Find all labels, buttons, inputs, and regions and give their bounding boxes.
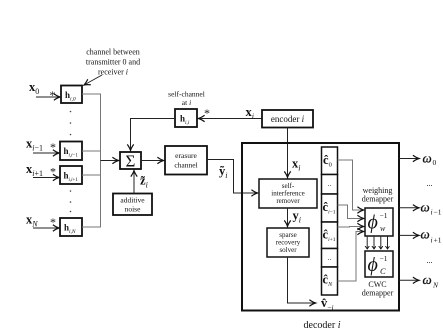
svg-text:encoder i: encoder i	[271, 114, 305, 124]
svg-text:transmitter 0 and: transmitter 0 and	[86, 58, 140, 67]
svg-text:receiver i: receiver i	[98, 68, 128, 77]
wire x_i+1 input arrow	[33, 177, 59, 179]
additive noise block	[113, 194, 152, 216]
svg-text:noise: noise	[125, 205, 142, 214]
wire h_i0 output to bus	[82, 94, 101, 151]
svg-text:+1: +1	[434, 236, 442, 245]
svg-text:−1: −1	[434, 208, 442, 217]
svg-text:xN: xN	[26, 213, 38, 229]
self-interference remover block	[259, 179, 317, 208]
svg-text:ϕ: ϕ	[368, 254, 378, 276]
svg-text:x0: x0	[29, 80, 39, 96]
svg-text:*: *	[50, 165, 56, 179]
wire h_ii to adder top	[131, 119, 176, 151]
svg-text:solver: solver	[279, 246, 297, 254]
svg-text:erasure: erasure	[175, 151, 197, 160]
svg-text:xi: xi	[292, 157, 300, 173]
svg-text:z̃i: z̃i	[140, 174, 148, 190]
svg-text:N: N	[432, 281, 439, 290]
wire h_ii-1 output to bus	[82, 150, 101, 152]
output omega_N	[399, 279, 419, 281]
svg-text:−1: −1	[380, 211, 388, 220]
svg-text:..: ..	[328, 180, 332, 188]
stack segment dots upper	[322, 175, 338, 195]
svg-text:demapper: demapper	[362, 195, 394, 204]
wire x_N input arrow	[33, 227, 59, 229]
svg-text:ϕ: ϕ	[368, 212, 378, 234]
svg-text:channel between: channel between	[86, 48, 140, 57]
output omega_0	[399, 158, 419, 160]
wires phi_w to phi_C (4 arrows)	[366, 236, 368, 249]
wire c_i+1 to weighing demapper	[338, 226, 364, 229]
svg-text:ỹi: ỹi	[219, 164, 227, 180]
wire remover to solver	[287, 208, 289, 227]
svg-text:xi−1: xi−1	[26, 137, 43, 153]
svg-text:ω: ω	[423, 272, 432, 287]
channel block h_ii-1	[60, 142, 82, 161]
svg-text:yi: yi	[293, 209, 301, 225]
annotation arrow	[84, 75, 102, 85]
svg-text:xi+1: xi+1	[26, 162, 43, 178]
label weighing demapper	[362, 186, 394, 204]
wire h_iN output to bus	[82, 175, 101, 227]
stack segment c_0 hat	[322, 147, 338, 175]
svg-text:*: *	[50, 140, 56, 154]
wire noise to adder bottom	[133, 171, 135, 194]
svg-text:i: i	[431, 236, 433, 245]
adder Sigma	[120, 152, 141, 169]
svg-text:*: *	[50, 88, 56, 102]
wire x_i-1 input arrow	[33, 152, 59, 154]
wire h_ii+1 output to bus	[82, 151, 101, 175]
svg-text:v̂−i: v̂−i	[321, 296, 334, 312]
svg-text:...: ...	[427, 179, 433, 188]
svg-text:decoder i: decoder i	[304, 320, 341, 331]
svg-text:ω: ω	[423, 151, 432, 166]
svg-text:*: *	[50, 215, 56, 229]
wire adder to erasure channel	[141, 160, 164, 162]
label self-channel at i	[168, 90, 205, 108]
svg-text:xi: xi	[246, 105, 254, 121]
wire encoder down to remover	[287, 128, 289, 178]
sparse recovery solver block	[267, 228, 309, 257]
svg-text:additive: additive	[120, 196, 145, 205]
channel block h_iN	[60, 218, 82, 236]
svg-text:demapper: demapper	[362, 289, 394, 298]
dots between h_i0 and h_ii-1	[70, 111, 72, 136]
weighing demapper block phi_w^-1	[365, 208, 393, 236]
stack segment c_N hat	[322, 267, 338, 295]
svg-text:remover: remover	[276, 197, 300, 205]
wire bus to adder	[101, 160, 119, 162]
wire x_0 input arrow	[36, 96, 60, 98]
wire encoder output to h_ii	[199, 118, 263, 120]
wire c_N to weighing demapper	[338, 232, 364, 282]
label CWC demapper	[362, 280, 394, 298]
erasure channel block	[165, 146, 207, 175]
svg-text:C: C	[380, 266, 386, 276]
wire c_0 to weighing demapper	[338, 160, 364, 210]
stack segment dots lower	[322, 249, 338, 268]
svg-text:−1: −1	[380, 254, 388, 263]
svg-text:ω: ω	[421, 200, 430, 215]
output omega_i+1	[399, 234, 419, 236]
channel block h_i0	[61, 86, 82, 104]
svg-text:Σ: Σ	[126, 152, 136, 171]
wire c_i-1 to weighing demapper	[338, 205, 364, 219]
CWC demapper block phi_C^-1	[365, 251, 393, 277]
svg-text:at i: at i	[182, 98, 191, 107]
svg-text:0: 0	[433, 158, 437, 167]
encoder block	[262, 110, 313, 128]
channel block h_ii+1	[60, 166, 82, 184]
stack segment c_i-1 hat	[322, 194, 338, 222]
stack segment c_i+1 hat	[322, 222, 338, 249]
svg-text:*: *	[204, 106, 210, 120]
dots between h_ii+1 and h_iN	[70, 190, 72, 212]
svg-text:w: w	[380, 224, 386, 233]
wire solver to v_-i output	[288, 257, 316, 303]
wire erasure channel to remover (y tilde path)	[207, 160, 258, 194]
svg-text:..: ..	[328, 254, 332, 262]
svg-text:i: i	[431, 208, 433, 217]
output omega_i-1	[399, 207, 419, 209]
annotation: channel between transmitter 0 and receiver i	[86, 48, 140, 77]
self-channel block h_ii	[175, 109, 197, 127]
svg-text:channel: channel	[174, 161, 197, 170]
svg-text:ω: ω	[421, 227, 430, 242]
decoder i box	[242, 143, 399, 311]
svg-text:...: ...	[427, 256, 433, 265]
